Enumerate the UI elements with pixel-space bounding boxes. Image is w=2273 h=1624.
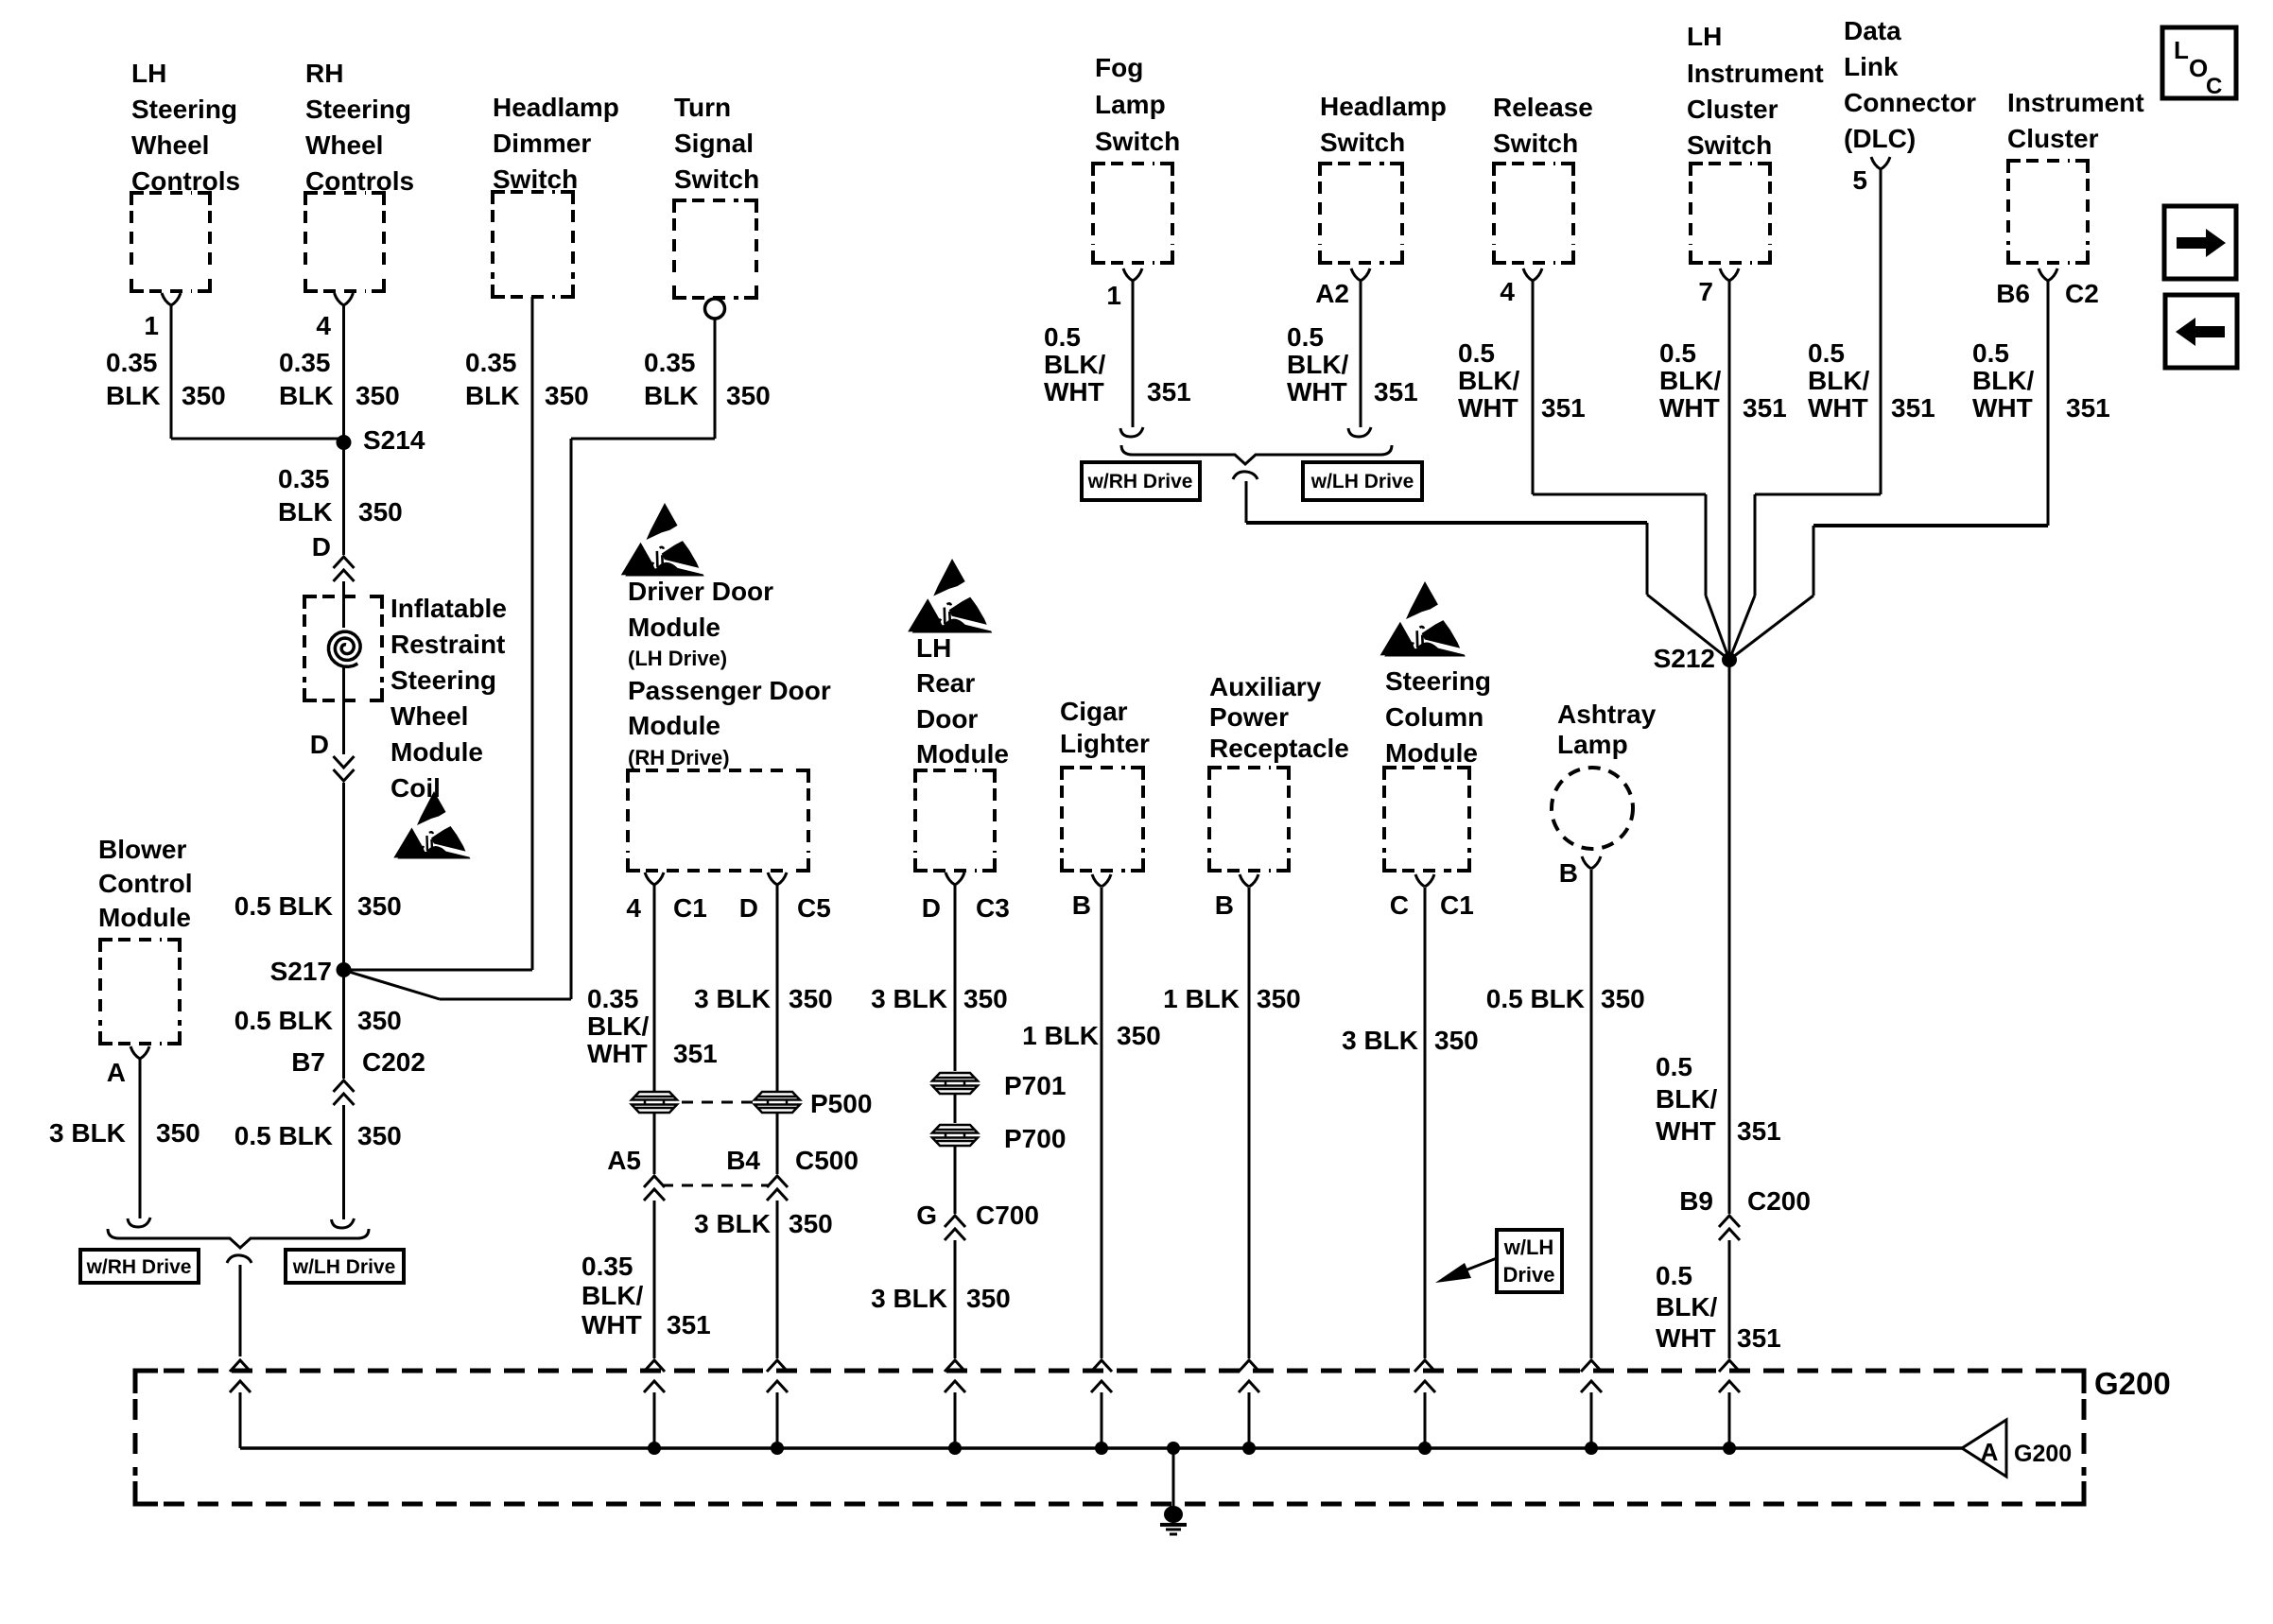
svg-text:Module: Module [98, 903, 191, 932]
svg-text:BLK/: BLK/ [1458, 366, 1520, 395]
svg-text:B: B [1559, 858, 1578, 888]
svg-text:A: A [107, 1058, 126, 1087]
svg-text:Instrument: Instrument [2007, 88, 2144, 117]
svg-text:350: 350 [357, 1121, 402, 1150]
svg-text:0.5 BLK: 0.5 BLK [234, 1006, 333, 1035]
svg-text:WHT: WHT [1458, 393, 1518, 423]
svg-text:350: 350 [545, 381, 589, 410]
svg-text:Lamp: Lamp [1557, 730, 1628, 759]
svg-text:351: 351 [1374, 377, 1418, 406]
svg-text:B: B [1215, 890, 1234, 920]
svg-text:0.5 BLK: 0.5 BLK [234, 891, 333, 921]
svg-text:RH: RH [305, 59, 343, 88]
svg-text:C1: C1 [1440, 890, 1474, 920]
svg-text:Data: Data [1844, 16, 1901, 45]
svg-text:0.5: 0.5 [1972, 338, 2009, 368]
svg-text:0.5: 0.5 [1659, 338, 1696, 368]
svg-text:w/RH Drive: w/RH Drive [86, 1256, 192, 1278]
svg-text:Module: Module [628, 613, 720, 642]
svg-text:Module: Module [1385, 738, 1478, 768]
svg-text:Receptacle: Receptacle [1209, 734, 1349, 763]
svg-text:Ashtray: Ashtray [1557, 700, 1657, 729]
svg-text:Lighter: Lighter [1060, 729, 1150, 758]
svg-text:Signal: Signal [674, 129, 754, 158]
svg-text:Steering: Steering [131, 95, 237, 124]
svg-text:BLK: BLK [278, 497, 333, 527]
svg-text:3 BLK: 3 BLK [49, 1118, 126, 1148]
svg-text:Fog: Fog [1095, 53, 1143, 82]
svg-text:w/LH Drive: w/LH Drive [1310, 471, 1414, 492]
svg-text:0.35: 0.35 [465, 348, 517, 377]
svg-text:Connector: Connector [1844, 88, 1976, 117]
svg-text:LH: LH [1687, 22, 1722, 51]
svg-text:Auxiliary: Auxiliary [1209, 672, 1322, 701]
svg-text:0.5: 0.5 [1808, 338, 1845, 368]
svg-text:351: 351 [1541, 393, 1586, 423]
svg-text:B9: B9 [1679, 1186, 1713, 1216]
svg-text:3 BLK: 3 BLK [871, 1284, 947, 1313]
svg-text:Switch: Switch [1493, 129, 1578, 158]
svg-text:Drive: Drive [1502, 1263, 1554, 1287]
svg-text:350: 350 [1601, 984, 1645, 1013]
svg-text:3 BLK: 3 BLK [871, 984, 947, 1013]
svg-text:(LH Drive): (LH Drive) [628, 647, 727, 670]
svg-text:C2: C2 [2065, 279, 2099, 308]
svg-text:Module: Module [916, 739, 1009, 769]
svg-text:Rear: Rear [916, 668, 975, 698]
svg-text:Release: Release [1493, 93, 1593, 122]
svg-text:WHT: WHT [1808, 393, 1868, 423]
svg-text:G200: G200 [2014, 1441, 2072, 1467]
svg-text:S214: S214 [363, 425, 425, 455]
svg-text:C3: C3 [976, 893, 1010, 923]
svg-text:1: 1 [1106, 281, 1121, 310]
svg-text:Wheel: Wheel [390, 701, 468, 731]
svg-text:Door: Door [916, 704, 978, 734]
svg-text:D: D [922, 893, 941, 923]
svg-text:w/LH: w/LH [1503, 1235, 1554, 1259]
svg-text:G: G [916, 1201, 937, 1230]
svg-text:350: 350 [726, 381, 771, 410]
svg-text:1: 1 [144, 311, 159, 340]
svg-text:WHT: WHT [1656, 1116, 1716, 1146]
svg-text:3 BLK: 3 BLK [1342, 1026, 1418, 1055]
svg-text:BLK/: BLK/ [1972, 366, 2035, 395]
svg-text:Column: Column [1385, 702, 1484, 732]
svg-text:G200: G200 [2094, 1366, 2171, 1401]
svg-text:P500: P500 [810, 1089, 872, 1118]
svg-text:w/RH Drive: w/RH Drive [1087, 471, 1193, 492]
svg-text:Restraint: Restraint [390, 630, 505, 659]
svg-text:351: 351 [667, 1310, 711, 1339]
svg-text:0.35: 0.35 [279, 348, 331, 377]
svg-text:3 BLK: 3 BLK [694, 984, 771, 1013]
svg-text:WHT: WHT [1656, 1323, 1716, 1353]
svg-text:WHT: WHT [1287, 377, 1347, 406]
svg-text:Lamp: Lamp [1095, 90, 1166, 119]
svg-text:350: 350 [1117, 1021, 1161, 1050]
svg-text:350: 350 [789, 1209, 833, 1238]
svg-text:350: 350 [356, 381, 400, 410]
svg-text:350: 350 [357, 1006, 402, 1035]
svg-text:351: 351 [1147, 377, 1191, 406]
svg-text:4: 4 [626, 893, 641, 923]
svg-text:Wheel: Wheel [131, 130, 209, 160]
svg-text:350: 350 [358, 497, 403, 527]
svg-text:7: 7 [1698, 277, 1713, 306]
svg-text:Power: Power [1209, 702, 1289, 732]
svg-text:Steering: Steering [1385, 666, 1491, 696]
svg-text:BLK: BLK [279, 381, 334, 410]
svg-text:351: 351 [1891, 393, 1935, 423]
svg-text:Passenger Door: Passenger Door [628, 676, 831, 705]
svg-text:WHT: WHT [587, 1039, 648, 1068]
svg-text:0.5: 0.5 [1656, 1261, 1692, 1290]
svg-text:4: 4 [1500, 277, 1515, 306]
svg-text:Switch: Switch [674, 164, 759, 194]
svg-text:Switch: Switch [493, 164, 578, 194]
svg-text:0.5 BLK: 0.5 BLK [1486, 984, 1585, 1013]
svg-text:Blower: Blower [98, 835, 186, 864]
svg-text:A: A [1981, 1438, 1999, 1466]
svg-text:D: D [310, 730, 329, 759]
svg-text:B7: B7 [291, 1047, 325, 1077]
svg-text:Driver Door: Driver Door [628, 577, 773, 606]
svg-text:BLK: BLK [106, 381, 161, 410]
svg-text:0.35: 0.35 [278, 464, 330, 493]
svg-text:0.35: 0.35 [581, 1252, 633, 1281]
svg-text:L: L [2174, 36, 2189, 64]
svg-text:0.35: 0.35 [644, 348, 696, 377]
svg-text:Switch: Switch [1095, 127, 1180, 156]
svg-text:5: 5 [1852, 165, 1867, 195]
svg-text:Controls: Controls [305, 166, 414, 196]
svg-text:C700: C700 [976, 1201, 1039, 1230]
svg-text:Module: Module [628, 711, 720, 740]
svg-text:350: 350 [963, 984, 1008, 1013]
svg-text:0.5 BLK: 0.5 BLK [234, 1121, 333, 1150]
svg-text:(DLC): (DLC) [1844, 124, 1916, 153]
svg-text:3 BLK: 3 BLK [694, 1209, 771, 1238]
svg-text:Switch: Switch [1687, 130, 1772, 160]
svg-text:350: 350 [789, 984, 833, 1013]
svg-text:P700: P700 [1004, 1124, 1066, 1153]
svg-text:Wheel: Wheel [305, 130, 383, 160]
svg-text:C202: C202 [362, 1047, 425, 1077]
svg-text:WHT: WHT [581, 1310, 642, 1339]
svg-text:C200: C200 [1747, 1186, 1811, 1216]
svg-text:Turn: Turn [674, 93, 731, 122]
svg-text:C: C [1390, 890, 1409, 920]
svg-text:350: 350 [1257, 984, 1301, 1013]
svg-text:WHT: WHT [1659, 393, 1720, 423]
svg-text:Cigar: Cigar [1060, 697, 1128, 726]
svg-text:BLK/: BLK/ [1044, 350, 1106, 379]
svg-text:WHT: WHT [1972, 393, 2033, 423]
svg-text:C1: C1 [673, 893, 707, 923]
svg-text:1 BLK: 1 BLK [1022, 1021, 1099, 1050]
svg-text:Headlamp: Headlamp [493, 93, 619, 122]
svg-text:Controls: Controls [131, 166, 240, 196]
svg-text:351: 351 [1737, 1116, 1781, 1146]
svg-text:WHT: WHT [1044, 377, 1104, 406]
svg-text:BLK: BLK [465, 381, 520, 410]
svg-text:BLK/: BLK/ [581, 1281, 644, 1310]
svg-text:Control: Control [98, 869, 193, 898]
svg-text:350: 350 [357, 891, 402, 921]
svg-text:B: B [1072, 890, 1091, 920]
svg-text:BLK/: BLK/ [1656, 1292, 1718, 1322]
svg-text:0.5: 0.5 [1287, 322, 1324, 352]
svg-text:B6: B6 [1996, 279, 2030, 308]
svg-text:S217: S217 [270, 957, 332, 986]
svg-text:350: 350 [156, 1118, 200, 1148]
svg-text:D: D [739, 893, 758, 923]
svg-text:BLK/: BLK/ [1287, 350, 1349, 379]
svg-text:0.5: 0.5 [1458, 338, 1495, 368]
svg-text:BLK/: BLK/ [1656, 1084, 1718, 1114]
svg-text:BLK: BLK [644, 381, 699, 410]
svg-text:Cluster: Cluster [1687, 95, 1778, 124]
svg-text:Instrument: Instrument [1687, 59, 1824, 88]
svg-text:D: D [312, 532, 331, 561]
svg-text:S212: S212 [1654, 644, 1715, 673]
svg-text:351: 351 [1743, 393, 1787, 423]
svg-text:C500: C500 [795, 1146, 859, 1175]
svg-text:0.5: 0.5 [1656, 1052, 1692, 1081]
svg-text:Steering: Steering [305, 95, 411, 124]
svg-text:BLK/: BLK/ [1659, 366, 1722, 395]
svg-text:Link: Link [1844, 52, 1899, 81]
svg-text:351: 351 [673, 1039, 718, 1068]
svg-text:350: 350 [1434, 1026, 1479, 1055]
svg-text:B4: B4 [726, 1146, 760, 1175]
svg-text:Steering: Steering [390, 665, 496, 695]
svg-text:Switch: Switch [1320, 128, 1405, 157]
svg-text:351: 351 [2066, 393, 2110, 423]
svg-text:Dimmer: Dimmer [493, 129, 591, 158]
svg-text:Cluster: Cluster [2007, 124, 2099, 153]
svg-text:Inflatable: Inflatable [390, 594, 507, 623]
svg-text:A5: A5 [607, 1146, 641, 1175]
svg-text:C5: C5 [797, 893, 831, 923]
svg-text:350: 350 [182, 381, 226, 410]
svg-text:(RH Drive): (RH Drive) [628, 746, 730, 769]
svg-text:1 BLK: 1 BLK [1163, 984, 1240, 1013]
svg-text:0.35: 0.35 [587, 984, 639, 1013]
svg-text:A2: A2 [1315, 279, 1349, 308]
svg-text:Headlamp: Headlamp [1320, 92, 1447, 121]
svg-text:351: 351 [1737, 1323, 1781, 1353]
svg-text:LH: LH [916, 633, 951, 663]
svg-text:Module: Module [390, 737, 483, 767]
svg-text:0.5: 0.5 [1044, 322, 1081, 352]
svg-text:BLK/: BLK/ [587, 1011, 650, 1041]
svg-text:4: 4 [316, 311, 331, 340]
svg-text:w/LH Drive: w/LH Drive [292, 1256, 396, 1278]
svg-text:P701: P701 [1004, 1071, 1066, 1100]
svg-text:350: 350 [966, 1284, 1011, 1313]
svg-text:0.35: 0.35 [106, 348, 158, 377]
svg-text:BLK/: BLK/ [1808, 366, 1870, 395]
svg-text:C: C [2206, 74, 2222, 99]
svg-text:LH: LH [131, 59, 166, 88]
